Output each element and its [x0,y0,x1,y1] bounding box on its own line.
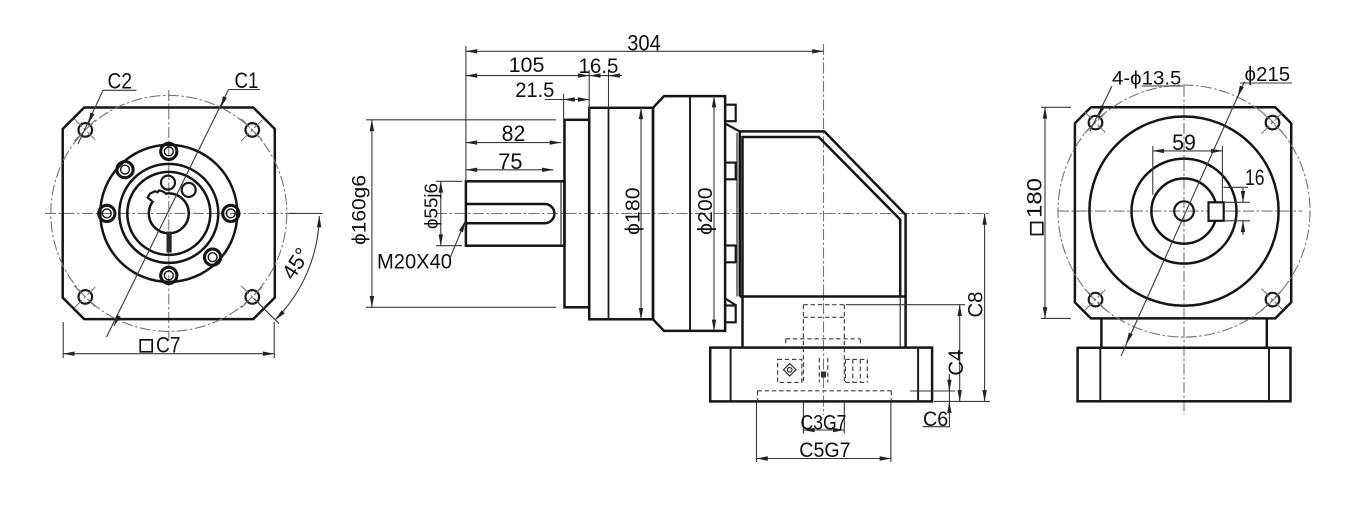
screw hole at 270 deg [161,267,177,283]
dimension C8 [934,400,990,402]
right view: pilot circle [1089,117,1278,306]
45-degree angle dimension arc [275,216,319,320]
svg-text:C8: C8 [965,292,988,318]
phi180 section [589,108,653,319]
45-degree horizontal extension line [289,212,323,214]
dimension 75 [466,169,554,171]
seam line in phi200 section [689,96,691,331]
angled housing inner contour [743,137,901,297]
45-degree diagonal extension line [254,298,280,324]
dimension C7 (square width) [62,322,64,358]
middle view: vertical centerline (output axis) [823,44,825,415]
right view: base plate [1078,348,1291,402]
left view: outer boss circle [100,145,237,282]
svg-text:C3G7: C3G7 [801,411,847,435]
dimension C4 [846,304,965,306]
svg-text:ϕ200: ϕ200 [694,187,717,235]
input flange phi160 section [565,120,590,307]
left view: bore keyway bump tab [148,190,166,201]
middle view: horizontal centerline (main axis) [436,213,990,215]
dimension 304 [465,46,467,181]
base plate [710,348,932,402]
svg-text:180: 180 [1023,178,1047,218]
svg-text:75: 75 [498,149,522,174]
left view: horizontal centerline [45,212,295,214]
corner hole [1089,116,1103,130]
dimension C5G7 [756,402,758,462]
dimension 16 (key) [1225,201,1250,203]
left view: ring circle [119,164,218,263]
seam line in phi180 section [608,108,610,319]
right view: center hole [1174,201,1194,221]
left view: center bore [149,193,189,233]
left view: square flange outline (chamfered) [63,108,275,320]
hidden spigot lines [786,338,861,340]
svg-text:ϕ160g6: ϕ160g6 [350,175,371,245]
hidden bolt pocket left with screw diamond [778,359,802,382]
right view: base step lines [1099,348,1101,402]
svg-text:16: 16 [1245,165,1265,190]
dimension phi180 [640,108,642,319]
hidden recess line in base [758,390,892,392]
hidden bolt pocket right [845,359,847,382]
dimension C6 [910,390,955,392]
left view: small hole B [182,183,196,197]
left view: bore keyway slot (bottom) [167,232,172,253]
corner hole [79,290,93,304]
square symbol of 180 [1031,223,1043,235]
svg-text:16.5: 16.5 [579,54,619,78]
dimension phi160g6 [366,119,556,121]
dimension 16.5 [608,70,610,108]
svg-text:105: 105 [509,53,545,77]
screw hole at 90 deg [161,143,177,159]
screw hole at 315 deg [205,249,221,265]
input shaft outline [466,181,565,245]
svg-text:C7: C7 [156,333,181,358]
svg-text:ϕ180: ϕ180 [622,187,645,235]
screw hole at 180 deg [99,205,115,221]
dimension square-180 [1041,106,1071,108]
right view: phi215 bolt circle (dash-dot) [1058,85,1310,337]
base plate left step line [730,348,732,402]
right view: inner circle phi59 [1151,179,1216,244]
left view: vertical centerline [168,90,170,340]
transition chamfer bottom [726,299,737,306]
phi200 section with chamfered left corners [653,96,725,331]
svg-text:21.5: 21.5 [515,78,554,102]
dimension 59 [1152,146,1154,195]
screw hole at 0 deg [223,205,239,221]
screw hole at 135 deg [117,162,133,178]
right view: vertical centerline [1183,86,1185,415]
dimension 82 [466,142,561,144]
corner hole [246,123,260,137]
right view: middle circle [1132,159,1237,264]
right view: horizontal centerline [1058,210,1302,212]
tab [725,306,736,323]
output flange section sides [741,297,744,348]
dimension 105 [588,70,590,120]
housing flange seam [740,295,906,298]
corner hole [1089,293,1103,307]
right view: pedestal neck [1100,318,1103,347]
base plate right step line [917,348,919,402]
svg-text:M20X40: M20X40 [377,251,452,274]
left view: bolt-circle (dash-dot, through corner holes) [51,95,287,331]
svg-text:C4: C4 [945,349,968,375]
housing left face lip line [736,133,738,297]
tab [725,163,736,180]
right view: key slot square [1209,202,1224,221]
svg-text:304: 304 [627,31,661,56]
hidden center boss lines [802,305,804,383]
svg-text:C6: C6 [923,407,948,431]
corner hole [246,290,260,304]
dimension phi200 [713,96,715,331]
svg-text:59: 59 [1172,130,1196,155]
dimension 21.5 [563,94,565,176]
corner hole [1266,116,1280,130]
left view: small hole A [161,176,175,190]
shaft cylinder end line [560,181,562,245]
corner hole [79,123,93,137]
angled housing outer contour [740,131,906,296]
dimension C3G7 [802,402,804,434]
corner hole [1266,293,1280,307]
hidden center tapped hole [818,358,820,382]
svg-text:C5G7: C5G7 [799,438,850,462]
svg-text:ϕ55j6: ϕ55j6 [421,183,441,229]
left view: inner circle [127,172,210,255]
tab [725,105,736,122]
dimension phi55j6 [436,180,462,182]
square symbol of C7 [140,340,152,352]
transition chamfer top [726,124,740,132]
svg-text:82: 82 [502,121,526,146]
right view: square flange outline (chamfered) [1075,107,1291,318]
tab [725,246,736,263]
shaft keyway slot [466,204,554,223]
